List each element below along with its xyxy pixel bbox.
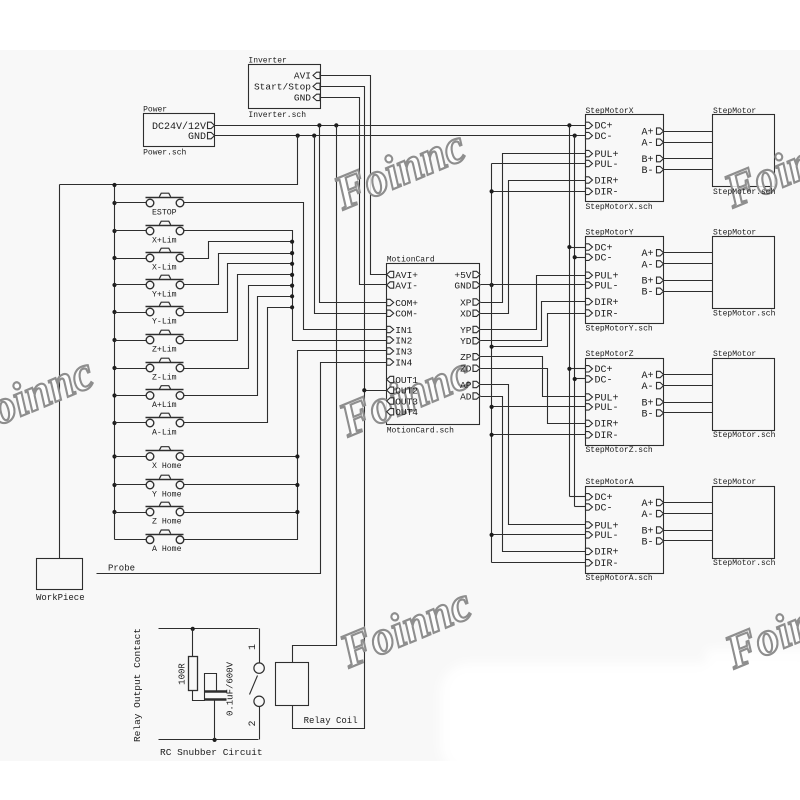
svg-text:A+: A+	[641, 128, 653, 139]
svg-text:StepMotor: StepMotor	[713, 350, 756, 359]
svg-text:Inverter: Inverter	[248, 57, 287, 66]
svg-text:DC-: DC-	[595, 503, 613, 514]
svg-text:X Home: X Home	[152, 462, 182, 471]
svg-text:B+: B+	[641, 155, 653, 166]
svg-text:2: 2	[248, 720, 259, 726]
svg-text:Relay Output Contact: Relay Output Contact	[132, 628, 143, 742]
svg-text:StepMotorY: StepMotorY	[586, 228, 634, 237]
svg-text:IN4: IN4	[395, 357, 412, 368]
svg-text:DIR-: DIR-	[595, 559, 619, 570]
svg-text:WorkPiece: WorkPiece	[36, 593, 85, 603]
svg-text:1: 1	[248, 644, 259, 650]
svg-text:IN1: IN1	[395, 325, 412, 336]
svg-text:StepMotor.sch: StepMotor.sch	[713, 188, 776, 197]
svg-text:Y+Lim: Y+Lim	[152, 289, 177, 299]
svg-text:PUL-: PUL-	[595, 281, 619, 292]
svg-text:DIR-: DIR-	[595, 188, 619, 199]
svg-text:OUT4: OUT4	[395, 407, 418, 418]
svg-text:AVI: AVI	[294, 71, 311, 82]
svg-text:StepMotorA: StepMotorA	[586, 478, 634, 487]
svg-text:Power: Power	[143, 106, 167, 115]
svg-text:StepMotor.sch: StepMotor.sch	[713, 559, 776, 568]
svg-text:X-Lim: X-Lim	[152, 262, 177, 272]
svg-text:Z+Lim: Z+Lim	[152, 344, 177, 354]
svg-text:ZD: ZD	[460, 364, 472, 375]
svg-text:AVI-: AVI-	[395, 280, 418, 291]
svg-text:Start/Stop: Start/Stop	[254, 82, 311, 93]
svg-text:100R: 100R	[178, 663, 188, 685]
svg-text:StepMotor: StepMotor	[713, 107, 756, 116]
svg-text:XD: XD	[460, 309, 472, 320]
svg-text:B+: B+	[641, 398, 653, 409]
svg-text:IN3: IN3	[395, 346, 412, 357]
svg-text:DC24V/12V: DC24V/12V	[152, 121, 206, 133]
svg-text:OUT2: OUT2	[395, 386, 418, 397]
svg-text:A-: A-	[641, 382, 653, 393]
svg-text:ZP: ZP	[460, 352, 472, 363]
svg-text:PUL-: PUL-	[595, 403, 619, 414]
svg-text:DC-: DC-	[595, 132, 613, 143]
svg-text:GND: GND	[294, 93, 311, 104]
svg-text:StepMotor.sch: StepMotor.sch	[713, 431, 776, 440]
svg-text:Relay Coil: Relay Coil	[304, 716, 358, 726]
svg-text:StepMotorX.sch: StepMotorX.sch	[586, 203, 653, 212]
svg-text:DIR-: DIR-	[595, 309, 619, 320]
svg-text:Probe: Probe	[108, 564, 135, 574]
svg-text:B-: B-	[641, 166, 653, 177]
svg-text:+5V: +5V	[454, 270, 471, 281]
svg-text:B+: B+	[641, 277, 653, 288]
svg-text:XP: XP	[460, 297, 472, 308]
svg-text:B-: B-	[641, 288, 653, 299]
svg-text:DIR-: DIR-	[595, 431, 619, 442]
svg-text:Z-Lim: Z-Lim	[152, 372, 177, 382]
svg-text:GND: GND	[188, 132, 206, 143]
svg-text:A-: A-	[641, 260, 653, 271]
svg-text:StepMotorZ: StepMotorZ	[586, 350, 634, 359]
svg-text:PUL-: PUL-	[595, 531, 619, 542]
svg-text:A Home: A Home	[152, 545, 182, 554]
svg-text:DIR+: DIR+	[595, 298, 619, 309]
svg-text:COM-: COM-	[395, 309, 418, 320]
svg-text:B+: B+	[641, 526, 653, 537]
svg-text:0.1uF/600V: 0.1uF/600V	[226, 661, 236, 716]
svg-text:AP: AP	[460, 380, 472, 391]
svg-text:Z Home: Z Home	[152, 517, 182, 526]
svg-text:A+: A+	[641, 499, 653, 510]
svg-text:B-: B-	[641, 409, 653, 420]
svg-text:GND: GND	[454, 280, 471, 291]
svg-text:B-: B-	[641, 537, 653, 548]
svg-text:MotionCard.sch: MotionCard.sch	[387, 427, 454, 436]
svg-text:Power.sch: Power.sch	[143, 148, 186, 157]
svg-text:A+Lim: A+Lim	[152, 400, 177, 410]
svg-text:OUT3: OUT3	[395, 396, 418, 407]
svg-text:DC-: DC-	[595, 375, 613, 386]
svg-text:StepMotorX: StepMotorX	[586, 107, 634, 116]
svg-text:DIR+: DIR+	[595, 548, 619, 559]
svg-text:A-: A-	[641, 139, 653, 150]
svg-text:DIR+: DIR+	[595, 420, 619, 431]
svg-text:PUL-: PUL-	[595, 160, 619, 171]
svg-text:A-: A-	[641, 510, 653, 521]
svg-text:OUT1: OUT1	[395, 375, 418, 386]
svg-text:A+: A+	[641, 371, 653, 382]
svg-text:StepMotorZ.sch: StepMotorZ.sch	[586, 446, 653, 455]
svg-text:StepMotorA.sch: StepMotorA.sch	[586, 574, 653, 583]
svg-text:ESTOP: ESTOP	[152, 208, 177, 217]
svg-text:IN2: IN2	[395, 335, 412, 346]
svg-text:StepMotor: StepMotor	[713, 228, 756, 237]
svg-text:RC Snubber Circuit: RC Snubber Circuit	[160, 747, 263, 758]
svg-text:Inverter.sch: Inverter.sch	[248, 111, 306, 120]
svg-text:AVI+: AVI+	[395, 270, 418, 281]
svg-text:AD: AD	[460, 391, 472, 402]
svg-text:DC-: DC-	[595, 254, 613, 265]
svg-text:YP: YP	[460, 325, 472, 336]
svg-text:DIR+: DIR+	[595, 176, 619, 187]
svg-text:COM+: COM+	[395, 298, 418, 309]
svg-text:StepMotorY.sch: StepMotorY.sch	[586, 324, 653, 333]
svg-text:A+: A+	[641, 249, 653, 260]
svg-text:A-Lim: A-Lim	[152, 427, 177, 437]
svg-text:X+Lim: X+Lim	[152, 235, 177, 245]
svg-text:Y-Lim: Y-Lim	[152, 316, 177, 326]
svg-text:YD: YD	[460, 336, 472, 347]
svg-text:StepMotor.sch: StepMotor.sch	[713, 309, 776, 318]
svg-text:StepMotor: StepMotor	[713, 478, 756, 487]
svg-text:Y Home: Y Home	[152, 490, 182, 499]
svg-text:MotionCard: MotionCard	[387, 256, 435, 265]
